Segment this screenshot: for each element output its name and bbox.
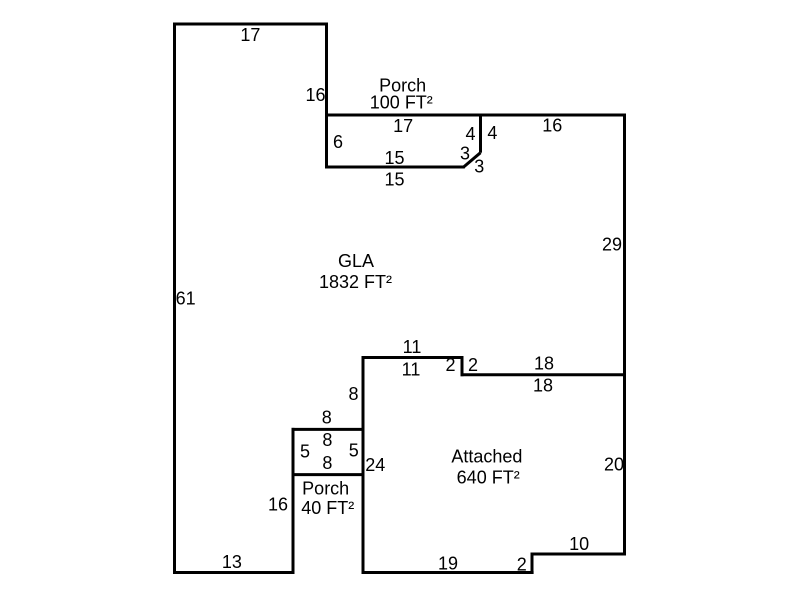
svg-text:29: 29 (602, 235, 622, 255)
wall 2 step vertical (461, 356, 464, 376)
wall top (17) (173, 23, 328, 26)
wall 10 horizontal (531, 553, 627, 556)
svg-text:640 FT²: 640 FT² (457, 468, 520, 488)
svg-text:20: 20 (604, 455, 624, 475)
svg-text:5: 5 (300, 442, 310, 462)
svg-text:4: 4 (465, 124, 475, 144)
svg-text:GLA: GLA (338, 251, 374, 271)
svg-text:3: 3 (474, 157, 484, 177)
wall 2 step bottom vertical (531, 553, 534, 575)
svg-text:6: 6 (333, 132, 343, 152)
svg-text:16: 16 (542, 115, 562, 135)
svg-text:17: 17 (393, 116, 413, 136)
svg-text:2: 2 (445, 355, 455, 375)
svg-text:Porch: Porch (302, 479, 349, 499)
svg-text:61: 61 (176, 288, 196, 308)
wall garage left (8/24) (362, 356, 365, 574)
svg-text:1832 FT²: 1832 FT² (319, 272, 392, 292)
svg-text:15: 15 (384, 169, 404, 189)
svg-text:18: 18 (534, 354, 554, 374)
wall porchbox top (8) (292, 428, 365, 431)
svg-text:4: 4 (487, 123, 497, 143)
svg-text:2: 2 (468, 355, 478, 375)
wall porchbox left + 16 wall (292, 428, 295, 574)
svg-text:5: 5 (349, 441, 359, 461)
svg-text:16: 16 (305, 85, 325, 105)
wall garage bottom (19) (362, 571, 534, 574)
svg-text:16: 16 (268, 495, 288, 515)
wall 18 horizontal (461, 373, 627, 376)
wall porch-top horizontal (17/16) (325, 114, 626, 117)
svg-text:8: 8 (322, 407, 332, 427)
wall upper-mid vertical (16/6) (325, 23, 328, 169)
svg-text:40 FT²: 40 FT² (301, 498, 354, 518)
svg-text:3: 3 (460, 144, 470, 164)
svg-text:24: 24 (365, 455, 385, 475)
wall porch diagonal (3) (464, 153, 481, 167)
svg-text:100 FT²: 100 FT² (370, 93, 433, 113)
svg-text:8: 8 (322, 453, 332, 473)
wall right (29/20) (623, 114, 626, 556)
svg-text:18: 18 (533, 375, 553, 395)
svg-text:11: 11 (402, 360, 421, 380)
svg-text:11: 11 (403, 337, 422, 357)
wall porch notch vertical (4) (479, 114, 482, 153)
svg-text:8: 8 (348, 384, 358, 404)
wall porch bottom (15) (325, 166, 465, 169)
wall porchbox bottom (8) (292, 473, 365, 476)
wall bottom-left (13) (173, 571, 295, 574)
svg-text:2: 2 (517, 555, 527, 575)
svg-text:15: 15 (384, 148, 404, 168)
svg-text:17: 17 (240, 25, 260, 45)
svg-text:19: 19 (438, 554, 458, 574)
wall left (61) (173, 23, 176, 575)
wall 11 horizontal (362, 356, 464, 359)
svg-text:10: 10 (569, 534, 589, 554)
svg-text:8: 8 (322, 430, 332, 450)
svg-text:Attached: Attached (451, 447, 522, 467)
svg-text:13: 13 (222, 552, 242, 572)
